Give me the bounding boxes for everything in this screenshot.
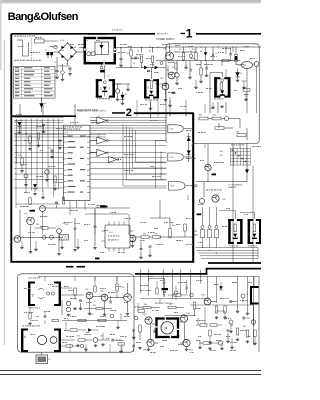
- svg-text:R61: R61: [169, 304, 172, 306]
- svg-text:D15: D15: [191, 145, 194, 147]
- svg-text:R1: R1: [137, 51, 139, 53]
- svg-text:R3: R3: [127, 53, 129, 55]
- svg-text:TR12: TR12: [143, 350, 147, 352]
- svg-text:C9: C9: [215, 53, 217, 55]
- svg-text:C38: C38: [230, 325, 233, 327]
- svg-text:R30: R30: [36, 224, 39, 226]
- svg-text:TR5: TR5: [24, 214, 28, 216]
- svg-text:M: M: [165, 327, 168, 331]
- svg-text:TR11: TR11: [186, 313, 190, 315]
- svg-text:R41: R41: [213, 115, 216, 117]
- svg-text:R52: R52: [77, 336, 80, 338]
- svg-text:C1: C1: [54, 62, 56, 64]
- svg-text:SECTION 1: SECTION 1: [157, 33, 169, 35]
- svg-text:R10: R10: [192, 49, 195, 51]
- svg-text:TR10: TR10: [142, 314, 146, 316]
- svg-text:TR8: TR8: [100, 291, 103, 293]
- svg-text:D12: D12: [15, 121, 18, 123]
- svg-text:1: 1: [186, 26, 193, 40]
- svg-text:C2: C2: [66, 64, 68, 66]
- svg-text:R9: R9: [179, 49, 181, 51]
- svg-text:TR9: TR9: [121, 287, 124, 289]
- svg-text:R35: R35: [155, 234, 158, 236]
- svg-text:TR13: TR13: [189, 350, 193, 352]
- svg-text:R24: R24: [18, 155, 21, 157]
- svg-text:R50: R50: [93, 305, 96, 307]
- svg-text:STABILIZED VOLTAGE SUPPLY: STABILIZED VOLTAGE SUPPLY: [77, 110, 107, 113]
- svg-text:3: 3: [32, 294, 34, 298]
- svg-text:R2: R2: [149, 51, 151, 53]
- svg-text:2: 2: [126, 107, 132, 119]
- svg-text:C6: C6: [172, 67, 174, 69]
- svg-text:P1: P1: [49, 359, 51, 361]
- svg-text:TR6: TR6: [222, 199, 225, 201]
- svg-text:M: M: [244, 63, 246, 67]
- svg-text:CHASSIS: CHASSIS: [228, 186, 237, 189]
- svg-text:R40: R40: [199, 115, 202, 117]
- svg-text:C4: C4: [133, 63, 135, 65]
- svg-text:C16: C16: [48, 148, 51, 150]
- svg-text:R122: R122: [65, 224, 69, 226]
- svg-text:D8: D8: [200, 51, 202, 53]
- svg-text:R36: R36: [172, 225, 175, 227]
- svg-text:TR14: TR14: [201, 295, 205, 297]
- svg-text:P2: P2: [246, 294, 248, 296]
- svg-text:TO TURNTABLE: TO TURNTABLE: [228, 183, 243, 186]
- svg-text:4: 4: [24, 335, 26, 339]
- svg-text:TR7: TR7: [85, 289, 88, 291]
- svg-text:TR2: TR2: [160, 78, 164, 80]
- svg-text:+75: +75: [107, 76, 110, 78]
- svg-text:POWER SUPPLY: POWER SUPPLY: [157, 39, 176, 41]
- svg-text:R34: R34: [143, 234, 146, 236]
- svg-text:D7: D7: [125, 94, 127, 96]
- svg-text:R43: R43: [236, 132, 239, 134]
- svg-text:R60: R60: [144, 304, 147, 306]
- svg-text:Bang&Olufsen: Bang&Olufsen: [8, 11, 79, 23]
- svg-text:IC4: IC4: [98, 116, 101, 118]
- svg-text:C30: C30: [100, 336, 103, 338]
- svg-text:R64: R64: [243, 326, 246, 328]
- svg-text:D9: D9: [240, 73, 242, 75]
- svg-text:S1: S1: [45, 50, 47, 52]
- svg-text:C14: C14: [40, 121, 43, 123]
